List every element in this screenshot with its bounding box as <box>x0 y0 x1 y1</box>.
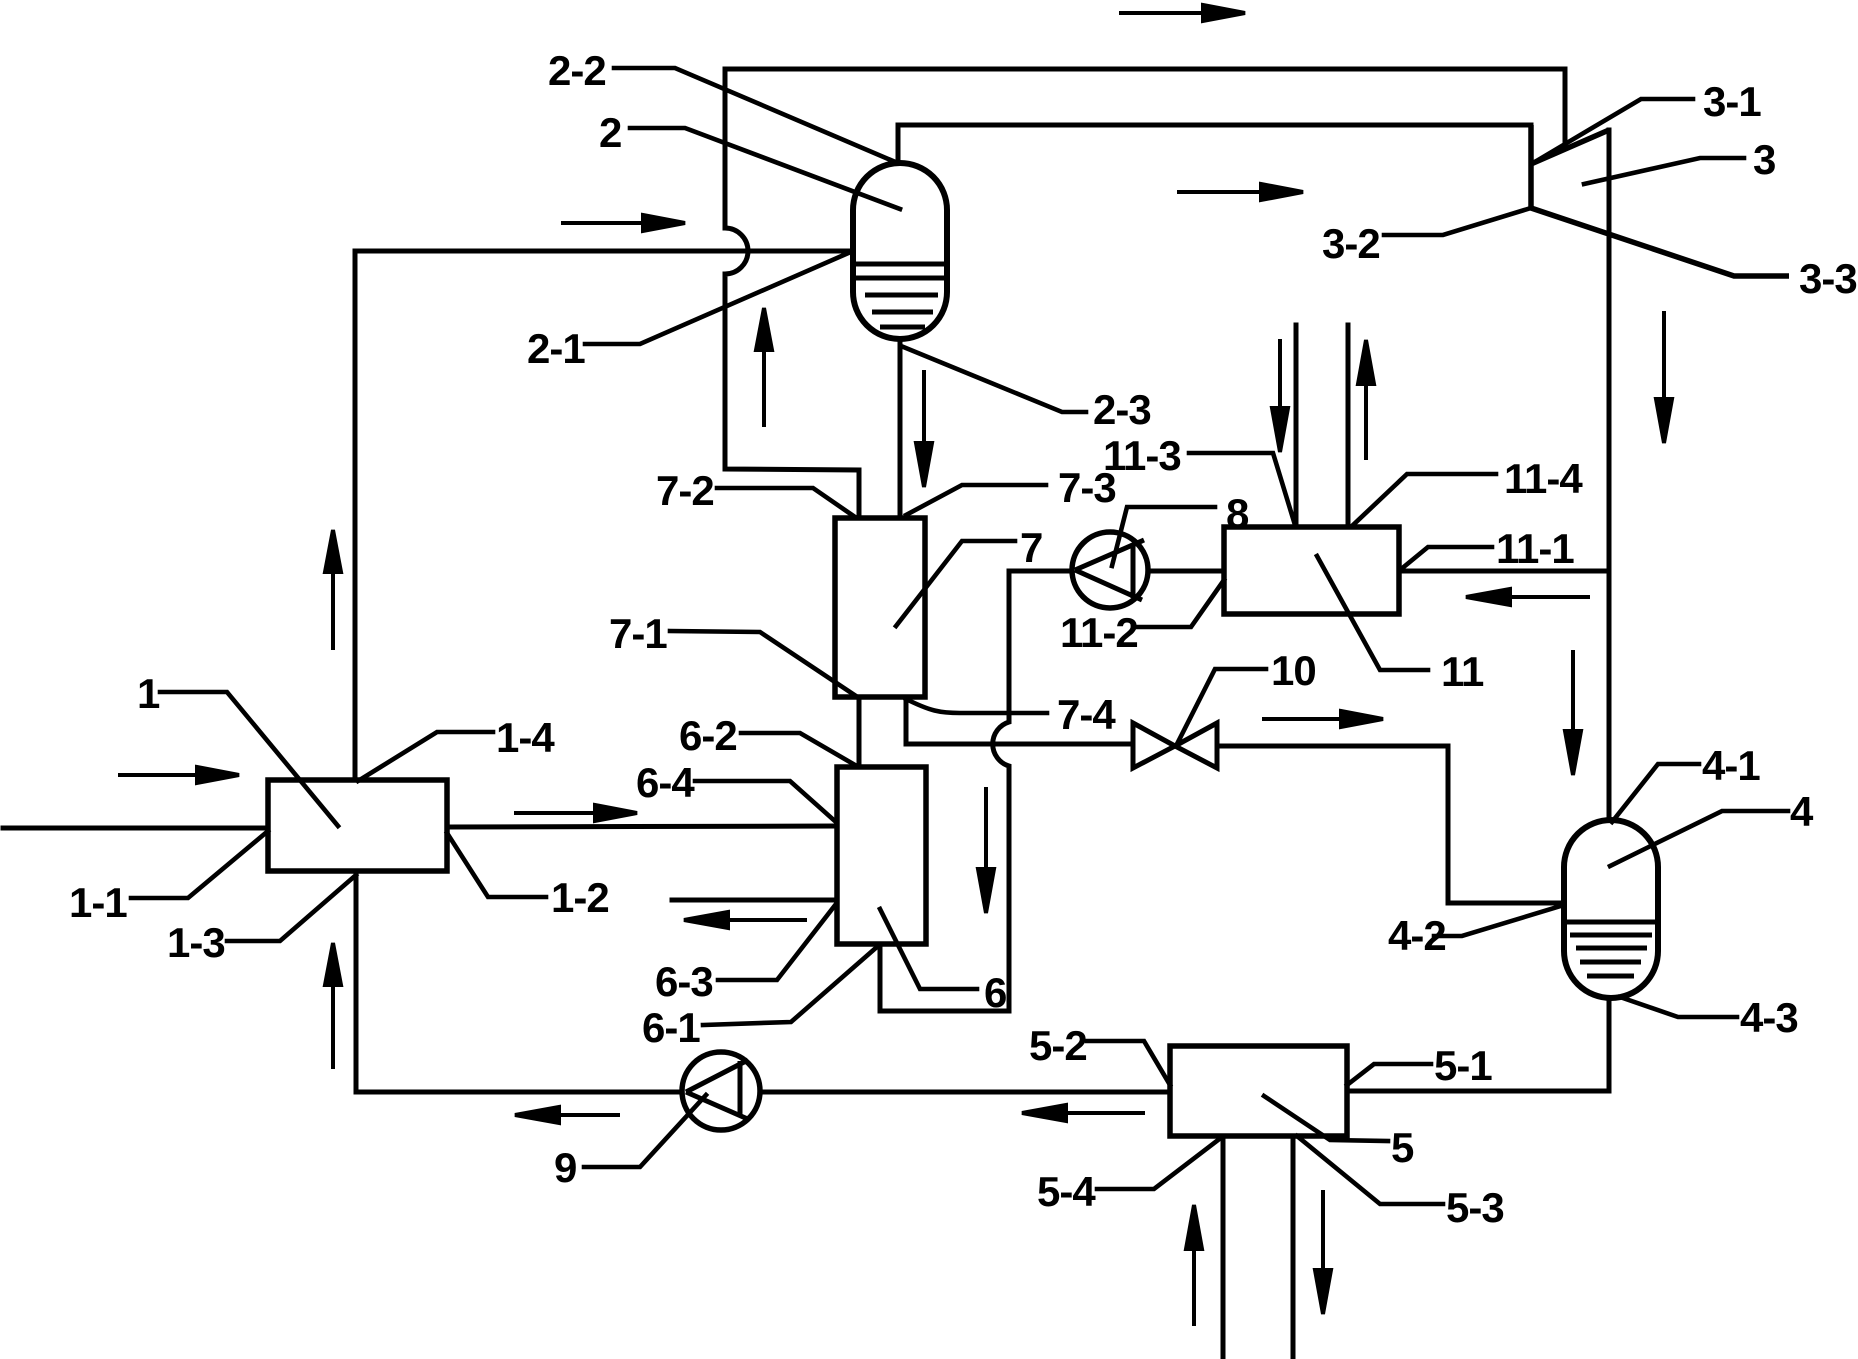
svg-text:11-1: 11-1 <box>1496 525 1574 572</box>
leader lines <box>131 68 1788 1204</box>
vessel 4 liquid level lines <box>1564 922 1658 976</box>
leader for label 11-4 <box>1352 474 1496 526</box>
arrow: flow left on bottom return line <box>515 1107 620 1123</box>
svg-text:7-2: 7-2 <box>656 467 714 514</box>
svg-text:1: 1 <box>137 670 160 717</box>
wire: main feed line into heat exchanger 1 <box>3 826 268 831</box>
condenser 7 <box>835 518 925 697</box>
svg-text:6-1: 6-1 <box>642 1004 700 1051</box>
svg-text:2: 2 <box>599 109 621 156</box>
arrow: flow right into vessel 2 line <box>561 215 685 231</box>
leader for label 5-1 <box>1347 1064 1431 1085</box>
svg-text:2-3: 2-3 <box>1093 386 1151 433</box>
leader for label 5-4 <box>1097 1137 1222 1189</box>
arrow: up flow beside x=725 riser <box>756 308 772 427</box>
arrow: up flow on pipe 11-4 <box>1358 340 1374 460</box>
wire: evaporator 5 bottom external pipe 5-3 <box>1291 1136 1296 1359</box>
leader for label 11-1 <box>1400 547 1492 570</box>
svg-text:11-3: 11-3 <box>1103 432 1181 479</box>
leader for label 2 <box>630 128 900 209</box>
svg-text:6-4: 6-4 <box>636 759 695 806</box>
arrow: down flow beside vessel 2 outlet pipe <box>916 370 932 487</box>
wire: top line 2 from vessel 2 top to turbine left edge <box>898 125 1531 163</box>
svg-text:3-2: 3-2 <box>1322 220 1380 267</box>
svg-text:2-2: 2-2 <box>548 47 606 94</box>
svg-text:4-2: 4-2 <box>1388 912 1446 959</box>
svg-text:3-3: 3-3 <box>1799 255 1857 302</box>
arrow: flow right after valve 10 <box>1262 711 1383 727</box>
leader for label 6-2 <box>741 733 855 765</box>
leader for label 2-2 <box>614 68 893 161</box>
pump 9 <box>682 1052 760 1130</box>
wire: vessel 2 bottom to condenser 7 top port 7-3 <box>898 339 903 518</box>
leader for label 3-1 <box>1533 99 1693 163</box>
leader for label 4-1 <box>1612 764 1699 822</box>
svg-text:6-2: 6-2 <box>679 712 737 759</box>
arrow: down flow beside box 6 return riser <box>978 787 994 913</box>
svg-text:7-1: 7-1 <box>609 610 667 657</box>
leader for label 7 <box>896 541 1015 626</box>
leader for label 7-2 <box>717 488 855 517</box>
leader for label 9 <box>584 1095 706 1167</box>
leader for label 1-2 <box>447 833 546 897</box>
wire: condenser 7 bottom left to box 6 top port 6-2 <box>857 697 862 767</box>
svg-text:4-3: 4-3 <box>1740 994 1798 1041</box>
leader for label 7-4 <box>906 699 1047 713</box>
wire: heat exchanger 11 right to right-side down pipe <box>1399 569 1609 574</box>
wire: box 6 bottom loop to pump 8, vertical hops over y=744 line <box>880 571 1071 1011</box>
arrow: top outlet flow right <box>1119 5 1245 21</box>
svg-text:7-4: 7-4 <box>1057 691 1116 738</box>
vessel 2 (separator drum) <box>853 163 947 339</box>
box 6 <box>837 767 926 944</box>
arrow: flow left out of port 6-3 <box>684 912 807 928</box>
svg-text:1-4: 1-4 <box>496 714 555 761</box>
svg-text:5-1: 5-1 <box>1434 1042 1492 1089</box>
leader for label 5 <box>1264 1096 1388 1141</box>
wire: left riser from heat exchanger 1 top to line feeding vessel 2 <box>355 251 853 780</box>
wire: box 6 left outlet stub 6-3 <box>672 898 837 903</box>
wire: heat exchanger 1 bottom to bottom return line through pump 9 <box>356 871 682 1092</box>
leader for label 2-3 <box>901 346 1086 412</box>
svg-text:8: 8 <box>1226 490 1249 537</box>
leader for label 4-3 <box>1620 997 1737 1017</box>
leader for label 6 <box>880 909 977 989</box>
leader for label 11 <box>1317 556 1428 670</box>
arrow: down flow beside turbine outlet pipe <box>1656 311 1672 443</box>
arrow: down flow on pipe 11-3 <box>1272 339 1288 452</box>
arrow: up flow beside left riser above heat exchanger 1 <box>325 530 341 650</box>
leader for label 3-2 <box>1384 208 1531 235</box>
svg-text:6-3: 6-3 <box>655 958 713 1005</box>
leader for label 2-1 <box>585 251 853 344</box>
wire: top line 1 from x=725 to turbine inlet drop <box>725 69 1565 147</box>
svg-text:10: 10 <box>1271 647 1316 694</box>
arrow: down flow beside pipe 5-3 <box>1315 1190 1331 1314</box>
arrow: down flow beside pipe into vessel 4 <box>1565 650 1581 775</box>
svg-text:5: 5 <box>1391 1124 1414 1171</box>
valve 10 <box>1133 723 1217 768</box>
wire: valve 10 outlet to vessel 4 left port 4-2 <box>1217 746 1564 903</box>
pump 8 <box>1072 532 1148 608</box>
svg-text:11-2: 11-2 <box>1060 609 1138 656</box>
leader for label 11-2 <box>1133 580 1224 627</box>
leader for label 7-3 <box>906 485 1046 515</box>
svg-text:1-1: 1-1 <box>69 879 127 926</box>
leader for label 5-3 <box>1297 1136 1443 1204</box>
wire: condenser 7 bottom right down and right to valve 10 <box>906 697 1133 744</box>
svg-text:1-2: 1-2 <box>551 874 609 921</box>
evaporator 5 <box>1170 1046 1347 1136</box>
svg-text:11: 11 <box>1441 648 1484 695</box>
svg-text:9: 9 <box>554 1144 576 1191</box>
arrow: flow right out of heat exchanger 1 <box>514 805 637 821</box>
leader for label 6-3 <box>718 904 836 980</box>
arrow: up flow beside pipe 5-4 <box>1186 1205 1202 1326</box>
svg-text:1-3: 1-3 <box>167 919 225 966</box>
vessel 4 (receiver drum) <box>1564 820 1658 998</box>
svg-text:2-1: 2-1 <box>527 325 585 372</box>
svg-text:4-1: 4-1 <box>1702 742 1760 789</box>
leader for label 11-3 <box>1189 453 1295 525</box>
svg-text:5-2: 5-2 <box>1029 1022 1087 1069</box>
leader for label 1-3 <box>227 875 356 941</box>
leader for label 1-1 <box>131 831 268 898</box>
leader for label 1 <box>160 692 338 826</box>
leader for label 8 <box>1112 507 1215 566</box>
svg-text:5-3: 5-3 <box>1446 1184 1504 1231</box>
heat exchanger 1 <box>268 780 447 871</box>
wire: heat exchanger 1 outlet to box 6 left port 6-4 <box>447 826 837 827</box>
leader for label 10 <box>1176 669 1266 746</box>
wire: external pipe 11-4 from heat exchanger 11 top <box>1346 325 1351 527</box>
svg-text:6: 6 <box>984 969 1006 1016</box>
leader for label 3 <box>1584 158 1744 184</box>
svg-text:11-4: 11-4 <box>1504 455 1583 502</box>
vessel 2 liquid level lines <box>853 264 947 327</box>
wire: pump 8 outlet to heat exchanger 11 left <box>1148 569 1224 574</box>
wire: evaporator 5 right to vessel 4 bottom <box>1347 998 1609 1091</box>
svg-text:7: 7 <box>1020 524 1042 571</box>
arrow: flow left into evaporator 5 <box>1022 1105 1145 1121</box>
leader for label 4-2 <box>1434 905 1564 936</box>
svg-text:3-1: 3-1 <box>1703 78 1761 125</box>
leader for label 7-1 <box>670 631 856 696</box>
wire: top-left vertical with hop over y=251 line, jog to condenser 7 top <box>725 69 859 518</box>
arrow: flow right into heat exchanger 1 <box>118 767 239 783</box>
leader for label 6-4 <box>695 781 836 822</box>
svg-text:3: 3 <box>1753 136 1775 183</box>
leader for label 4 <box>1610 811 1788 866</box>
leader for label 1-4 <box>358 732 493 781</box>
heat exchanger 11 <box>1224 527 1399 614</box>
svg-text:4: 4 <box>1790 788 1814 835</box>
arrow: flow left from right pipe into heat exchanger 11 <box>1466 589 1590 605</box>
wire: evaporator 5 bottom external pipe 5-4 <box>1221 1136 1226 1359</box>
turbine 3 <box>1531 125 1789 276</box>
arrow: up flow beside left riser below heat exchanger 1 <box>325 943 341 1069</box>
arrow: line 2 flow right toward turbine <box>1177 184 1303 200</box>
wire: external pipe 11-3 into heat exchanger 11 top <box>1294 325 1299 527</box>
wire: pump 9 outlet to evaporator 5 left <box>760 1090 1170 1095</box>
svg-text:5-4: 5-4 <box>1037 1168 1096 1215</box>
leader for label 5-2 <box>1087 1041 1170 1085</box>
leader for label 6-1 <box>703 946 878 1025</box>
wire: turbine 3 right edge down to vessel 4 top <box>1607 130 1612 820</box>
